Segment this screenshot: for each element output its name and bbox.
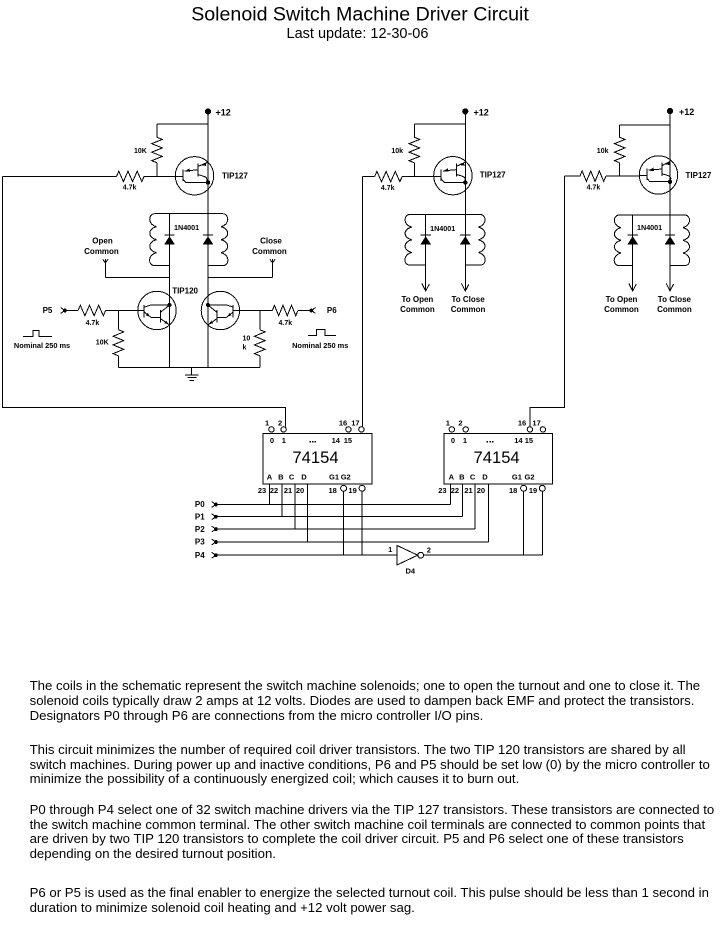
port P5 [43,306,53,315]
svg-text:23: 23 [438,486,446,495]
svg-text:10K: 10K [134,148,147,155]
resistor 10k (circuit 2 bias) [413,124,415,137]
svg-text:22: 22 [270,486,278,495]
svg-text:Common: Common [604,305,639,314]
U1 pin 18 circle [341,485,347,491]
wire P1 bus [216,516,462,518]
svg-text:P6: P6 [327,306,337,315]
svg-text:B: B [278,473,284,482]
wire coil top (circuit 2) [410,213,481,215]
svg-text:Common: Common [657,305,692,314]
svg-text:4.7k: 4.7k [279,320,293,327]
U1 pin 19 circle [359,485,365,491]
svg-text:16: 16 [518,418,526,427]
wire U2 pin 23 (A) riser [449,484,451,504]
svg-text:D: D [482,473,488,482]
wire U2 pin 18 (G1) to inverter output [523,491,525,555]
wire U2 pin 21 (C) riser [474,484,476,529]
wire to open common (circuit 2) [425,265,427,291]
U2 pin 17 (top) [540,427,545,432]
svg-text:21: 21 [284,486,292,495]
wire base (circuit 2) [363,176,434,178]
svg-text:+12: +12 [474,107,489,117]
svg-text:14: 14 [514,436,523,445]
wire circuit 1 select loop to decoder pin 2 [3,176,286,426]
U2 pin 19 circle [539,485,545,491]
svg-text:To Open: To Open [401,295,433,304]
U1 bottom pin numbers 23 22 21 20 18 19 [258,486,357,495]
svg-text:2: 2 [458,418,462,427]
IC U2 74154 decoder [444,433,553,484]
svg-text:0: 0 [270,436,274,445]
resistor 10K (P5 pulldown) [117,311,119,330]
IC U1 74154 decoder [263,433,372,484]
wire P0 bus [216,504,450,506]
svg-text:D4: D4 [406,567,416,576]
pulse waveform P6 [308,330,336,336]
coil open winding (circuit 3) [614,215,621,266]
transistor TIP127 (circuit 3) [639,156,677,194]
svg-text:4.7k: 4.7k [86,320,100,327]
svg-text:D: D [301,473,307,482]
U1 pin 16 (top) [346,427,351,432]
svg-text:k: k [243,345,247,352]
wire P5 base [106,310,138,312]
port P4 [195,551,205,560]
svg-text:P1: P1 [195,512,205,521]
wire U1 pin 22 (B) to P1 [281,484,283,517]
diode D1 1N4001 (open side, circuit 1) [169,214,171,266]
svg-text:P4: P4 [195,551,205,560]
svg-text:+12: +12 [216,107,231,117]
diode D2 1N4001 (close side, circuit 1) [207,214,209,266]
wire U1 pin 21 (C) to P2 [294,484,296,529]
wire close coil drop (circuit 1) [207,266,209,292]
svg-text:1N4001: 1N4001 [174,223,199,232]
diode 1N4001 (open side, circuit 2) [425,214,427,265]
U1 pin 2 (top) [281,427,286,432]
svg-text:20: 20 [296,486,304,495]
svg-text:19: 19 [348,486,356,495]
svg-text:18: 18 [509,486,517,495]
diode 1N4001 (open side, circuit 3) [632,215,634,266]
ground [185,368,199,381]
wire to close common (circuit 2) [464,265,466,291]
wire U1 pin 23 (A) to P0 [268,484,270,504]
svg-text:G1: G1 [329,473,339,482]
svg-text:TIP127: TIP127 [686,171,712,180]
svg-text:+12: +12 [679,107,694,117]
node +12 supply (circuit 1) [205,109,210,114]
transistor TIP120 (open driver) [138,291,176,329]
wire +12 rail (circuit 3) [620,111,670,157]
resistor 4.7k (P6) [272,305,298,315]
svg-text:Common: Common [252,247,287,256]
svg-text:1: 1 [463,436,467,445]
svg-text:16: 16 [339,418,347,427]
svg-text:C: C [470,473,476,482]
svg-text:10k: 10k [391,148,403,155]
svg-text:21: 21 [464,486,472,495]
U2 pin 2 (top) [463,427,468,432]
svg-text:TIP120: TIP120 [172,286,198,295]
wire coil top (circuit 1) [154,213,223,215]
wire collector to coil (circuit 1) [207,195,209,214]
wire emitters to ground rail [170,330,209,368]
svg-text:To Close: To Close [658,295,692,304]
svg-text:74154: 74154 [292,448,338,467]
svg-text:A: A [267,473,273,482]
svg-text:1: 1 [265,418,269,427]
wire inverter output to U2 G pins [424,554,543,556]
svg-text:Solenoid Switch Machine Driver: Solenoid Switch Machine Driver Circuit [191,3,529,25]
diode 1N4001 (close side, circuit 2) [464,215,466,266]
svg-text:15: 15 [344,436,352,445]
wire U1 pin 18 (G1) to P4 [343,491,345,555]
svg-text:To Close: To Close [452,295,486,304]
resistor 4.7k (circuit 3 base) [580,171,606,181]
svg-text:1N4001: 1N4001 [430,224,455,233]
svg-text:20: 20 [477,486,485,495]
wire coil top (circuit 3) [619,214,685,216]
svg-text:0: 0 [451,436,455,445]
node close common tap [270,259,275,277]
svg-text:Close: Close [260,237,282,246]
svg-text:2: 2 [427,545,431,554]
svg-text:2: 2 [278,418,282,427]
svg-text:17: 17 [351,418,359,427]
svg-text:74154: 74154 [474,448,520,467]
wire +12 rail (circuit 2) [414,111,465,157]
svg-text:10K: 10K [96,339,109,346]
diode 1N4001 (close side, circuit 3) [669,215,671,266]
inverter D4 [397,546,418,565]
svg-text:4.7k: 4.7k [587,185,601,192]
node open common tap [103,259,108,277]
port P6 [327,306,337,315]
U2 bottom pin numbers 23 22 21 20 18 19 [438,486,537,495]
svg-text:18: 18 [329,486,337,495]
U2 input labels A B C D G1 G2 [449,473,535,482]
coil open winding (circuit 2) [405,214,412,265]
description text block [29,0,31,1]
svg-text:Common: Common [400,305,435,314]
U2 pin 18 circle [521,485,527,491]
wire U1 pin 20 (D) to P3 [306,484,308,542]
svg-text:B: B [459,473,465,482]
svg-text:G2: G2 [524,473,534,482]
svg-text:P5: P5 [43,306,53,315]
svg-text:10: 10 [243,336,251,343]
svg-text:Nominal 250 ms: Nominal 250 ms [292,341,348,350]
resistor 4.7k (circuit 2 base) [375,171,403,181]
svg-text:15: 15 [525,436,533,445]
svg-text:23: 23 [258,486,266,495]
svg-text:G2: G2 [341,473,351,482]
U1 pin 17 (top) [359,427,364,432]
wire circuit 2 select drop to decoder pin 17 [362,177,364,427]
port P3 [195,538,205,547]
wire collector to coil (circuit 3) [669,194,671,215]
svg-text:P0: P0 [195,500,205,509]
svg-text:10k: 10k [597,148,609,155]
wire U2 pin 19 (G2) to inverter output [541,491,543,555]
resistor 10K (circuit 1 bias) [156,124,158,137]
pulse waveform P5 [23,330,52,336]
node +12 supply (circuit 3) [667,108,672,113]
wire P6 base [240,310,273,312]
port P2 [195,525,205,534]
U2 pin 16 (top) [527,427,532,432]
svg-text:Last update: 12-30-06: Last update: 12-30-06 [287,26,429,42]
svg-text:P2: P2 [195,525,205,534]
wire +12 rail (circuit 1) [157,111,208,157]
svg-text:A: A [449,473,455,482]
svg-text:Common: Common [451,305,486,314]
wire U2 pin 22 (B) riser [461,484,463,517]
wire to open common (circuit 3) [632,266,634,291]
wire U1 pin 19 (G2) to P4 [361,491,363,555]
U2 pin 1 (top) [449,427,454,432]
svg-text:22: 22 [451,486,459,495]
wire P4 to inverter input [216,554,397,556]
port P0 [195,500,205,509]
svg-text:Common: Common [84,247,119,256]
svg-text:4.7k: 4.7k [123,185,137,192]
transistor TIP127 (circuit 1) [175,157,213,195]
svg-text:4.7k: 4.7k [381,185,395,192]
svg-text:1: 1 [446,418,450,427]
wire open coil drop (circuit 1) [169,266,171,292]
wire collector to coil (circuit 2) [464,195,466,215]
transistor TIP120 (close driver) [201,291,239,329]
resistor 4.7k (P5) [78,305,106,315]
svg-text:Open: Open [92,237,113,246]
svg-text:17: 17 [532,418,540,427]
svg-text:P3: P3 [195,538,205,547]
wire circuit 3 select loop to decoder pin 16 [530,176,564,426]
svg-text:Nominal 250 ms: Nominal 250 ms [14,341,70,350]
transistor TIP127 (circuit 2) [434,157,472,195]
svg-text:1: 1 [388,545,392,554]
svg-text:G1: G1 [512,473,522,482]
svg-text:To Open: To Open [606,295,638,304]
resistor 4.7K (circuit 1 base) [117,171,145,181]
svg-text:1N4001: 1N4001 [637,223,662,232]
wire P3 bus [216,541,488,543]
coil close winding (circuit 2) [478,214,485,265]
wire base (circuit 3) [564,175,639,177]
U1 pin 1 (top) [269,427,274,432]
wire U2 pin 20 (D) riser [487,484,489,542]
svg-text:14: 14 [332,436,341,445]
svg-text:19: 19 [529,486,537,495]
wire P2 bus [216,528,475,530]
coil close winding (circuit 3) [683,215,690,266]
U1 output row labels 0 1 ... 14 15 [270,436,352,445]
resistor 10k (P6 pulldown) [259,311,261,330]
node +12 supply (circuit 2) [463,109,468,114]
U1 input labels A B C D G1 G2 [267,473,351,482]
svg-text:1: 1 [282,436,286,445]
svg-text:TIP127: TIP127 [480,171,506,180]
wire base (circuit 1) [3,175,176,177]
coil open winding (circuit 1) [150,214,157,266]
coil close winding (circuit 1) [221,214,228,266]
wire ground rail [118,367,259,369]
U2 output row labels 0 1 ... 14 15 [451,436,533,445]
svg-text:C: C [289,473,295,482]
port P1 [195,512,205,521]
resistor 10k (circuit 3 bias) [619,125,621,138]
wire to close common (circuit 3) [669,266,671,291]
svg-text:TIP127: TIP127 [222,172,248,181]
